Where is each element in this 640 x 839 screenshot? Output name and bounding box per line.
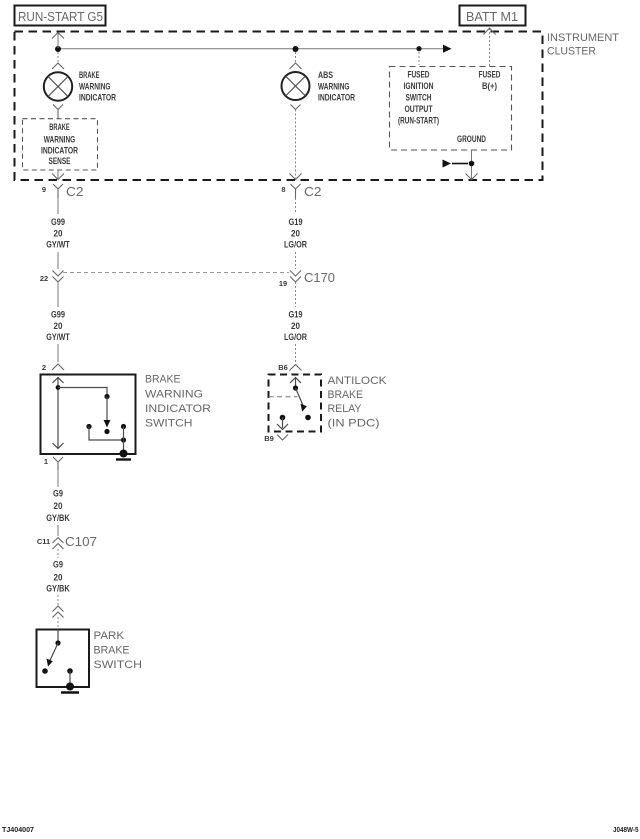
svg-text:C2: C2	[304, 185, 322, 199]
svg-text:B(+): B(+)	[482, 81, 497, 91]
svg-text:B6: B6	[278, 363, 288, 372]
svg-text:TJ404007: TJ404007	[2, 825, 34, 834]
svg-text:BRAKE: BRAKE	[145, 374, 181, 386]
svg-text:G19: G19	[289, 310, 303, 320]
svg-text:20: 20	[291, 229, 300, 239]
svg-text:BRAKE: BRAKE	[94, 645, 130, 657]
svg-text:20: 20	[54, 229, 63, 239]
svg-text:LG/OR: LG/OR	[284, 240, 307, 250]
svg-text:FUSED: FUSED	[479, 70, 501, 80]
svg-text:20: 20	[54, 573, 63, 583]
svg-text:WARNING: WARNING	[318, 82, 350, 92]
svg-text:WARNING: WARNING	[44, 134, 76, 144]
svg-text:OUTPUT: OUTPUT	[405, 104, 433, 114]
svg-text:INSTRUMENT: INSTRUMENT	[547, 32, 619, 44]
svg-text:RUN-START G5: RUN-START G5	[18, 10, 103, 24]
svg-text:BRAKE: BRAKE	[79, 70, 100, 80]
svg-text:C2: C2	[66, 185, 84, 199]
svg-text:G19: G19	[289, 217, 303, 227]
svg-text:C11: C11	[37, 537, 50, 546]
svg-text:GROUND: GROUND	[457, 134, 486, 144]
svg-text:C170: C170	[304, 271, 335, 285]
svg-text:J048W-5: J048W-5	[613, 825, 639, 834]
svg-text:SWITCH: SWITCH	[94, 659, 143, 671]
svg-text:INDICATOR: INDICATOR	[318, 93, 355, 103]
svg-text:SWITCH: SWITCH	[145, 418, 193, 430]
svg-text:BRAKE: BRAKE	[49, 122, 70, 132]
svg-text:20: 20	[54, 321, 63, 331]
svg-text:BRAKE: BRAKE	[328, 389, 364, 401]
svg-text:WARNING: WARNING	[145, 389, 203, 401]
svg-text:INDICATOR: INDICATOR	[41, 146, 78, 156]
svg-text:GY/BK: GY/BK	[46, 513, 70, 523]
svg-text:SENSE: SENSE	[49, 156, 71, 166]
svg-text:ANTILOCK: ANTILOCK	[328, 375, 388, 387]
svg-text:2: 2	[42, 363, 46, 372]
svg-text:RELAY: RELAY	[328, 403, 363, 415]
svg-text:INDICATOR: INDICATOR	[145, 403, 211, 415]
svg-text:(RUN-START): (RUN-START)	[398, 116, 439, 126]
svg-text:1: 1	[44, 457, 48, 466]
svg-text:G9: G9	[53, 489, 63, 499]
svg-text:BATT M1: BATT M1	[466, 10, 518, 24]
svg-text:SWITCH: SWITCH	[406, 93, 432, 103]
svg-text:8: 8	[281, 185, 285, 194]
svg-text:CLUSTER: CLUSTER	[547, 46, 596, 58]
svg-text:ABS: ABS	[318, 70, 333, 80]
svg-text:20: 20	[54, 501, 63, 511]
svg-text:G9: G9	[53, 560, 63, 570]
svg-text:B9: B9	[264, 434, 274, 443]
svg-text:C107: C107	[65, 535, 97, 549]
svg-text:GY/BK: GY/BK	[46, 584, 70, 594]
svg-text:PARK: PARK	[94, 630, 125, 642]
svg-text:(IN PDC): (IN PDC)	[328, 418, 380, 430]
svg-text:WARNING: WARNING	[79, 82, 111, 92]
svg-text:IGNITION: IGNITION	[404, 81, 434, 91]
svg-text:9: 9	[42, 185, 46, 194]
svg-text:INDICATOR: INDICATOR	[79, 93, 116, 103]
svg-text:20: 20	[291, 321, 300, 331]
svg-text:19: 19	[279, 279, 287, 288]
svg-text:G99: G99	[51, 217, 65, 227]
svg-text:GY/WT: GY/WT	[46, 332, 70, 342]
svg-text:FUSED: FUSED	[408, 70, 430, 80]
svg-text:22: 22	[40, 274, 48, 283]
svg-text:LG/OR: LG/OR	[284, 332, 307, 342]
svg-text:G99: G99	[51, 310, 65, 320]
svg-text:GY/WT: GY/WT	[46, 240, 70, 250]
